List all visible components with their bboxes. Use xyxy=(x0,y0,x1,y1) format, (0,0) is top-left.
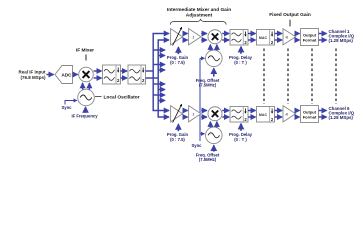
svg-text:(0 : T ): (0 : T ) xyxy=(234,60,247,65)
wire sync line between NCOs xyxy=(199,58,201,141)
output format block (channel 1) xyxy=(301,29,319,46)
amplifier A3 (fixed output gain, channel 1) xyxy=(283,29,296,45)
svg-text:-6: -6 xyxy=(285,112,288,116)
wire A7 to mixer M6 (Q) xyxy=(201,116,207,118)
svg-text:IF Frequency: IF Frequency xyxy=(71,113,98,118)
wire M6 to filter F6 (I) xyxy=(222,110,229,112)
wire input arrow to ADC xyxy=(47,74,54,76)
svg-text:(7.5MHz): (7.5MHz) xyxy=(199,82,217,87)
svg-text:Format: Format xyxy=(303,38,317,43)
wire A7 to mixer M6 (I) xyxy=(201,110,207,112)
svg-text:(76.8 MSps): (76.8 MSps) xyxy=(20,75,46,80)
brace under adjustment label xyxy=(170,19,226,24)
wire bus tap channel 3 I xyxy=(153,64,165,66)
oscillator NCO6 (channel 6) xyxy=(206,127,223,144)
wire filter F1 to filter F2 (Q) xyxy=(121,77,127,79)
wire filter F2 to bus line 1 xyxy=(146,70,154,72)
svg-text:Sync: Sync xyxy=(61,105,72,110)
node Real IF Input label xyxy=(19,70,47,80)
node Sync label (LO1) xyxy=(61,101,76,110)
wire mixer M1 to filter F1 (I) xyxy=(94,70,102,72)
wire NCO1 to mixer M2 (I) xyxy=(209,45,211,51)
node Freq. Offset input (channel 1) xyxy=(196,68,220,87)
wire F6 to MAC6 (Q) xyxy=(248,116,255,118)
wire F3 to MAC1 (Q) xyxy=(248,39,255,41)
wire bus tap channel 2 Q xyxy=(158,55,165,57)
wire bus tap channel 5 I xyxy=(153,94,165,96)
filter F3 (channel 1) xyxy=(230,30,248,46)
wire mixer M1 to filter F1 (Q) xyxy=(94,77,102,79)
wire A6 to A7 (I) xyxy=(183,110,188,112)
svg-text:Sync: Sync xyxy=(191,143,202,148)
svg-text:Format: Format xyxy=(303,115,317,120)
svg-text:Local Oscillator: Local Oscillator xyxy=(104,94,140,100)
oscillator LO1 xyxy=(78,89,95,106)
wire A2 to mixer M2 (Q) xyxy=(201,39,207,41)
wire LO1 to mixer M1 (I) xyxy=(82,83,84,89)
wire F3 to MAC1 (I) xyxy=(248,33,255,35)
wire bus tap channel 3 Q xyxy=(158,69,165,71)
svg-text:(7.5MHz): (7.5MHz) xyxy=(199,157,217,162)
node Channel 6 output label xyxy=(329,106,355,120)
wire MAC6 to A8 (I) xyxy=(275,110,282,112)
wire dashed ellipsis line 1 xyxy=(263,49,265,105)
wire sync arrow into NCO1 xyxy=(200,57,204,59)
wire A2 to mixer M2 (I) xyxy=(201,33,207,35)
MAC block (channel 1) xyxy=(257,30,275,46)
wire LO1 to mixer M1 (Q) xyxy=(88,83,90,89)
wire bus arrow into amp A6 (Q) xyxy=(165,116,169,118)
node Prog. Delay label (channel 1) xyxy=(229,47,253,65)
svg-text:Adjustment: Adjustment xyxy=(186,13,213,19)
oscillator NCO1 (channel 1) xyxy=(206,50,223,67)
svg-text:MAC: MAC xyxy=(259,113,268,117)
node Local Oscillator label xyxy=(95,94,140,100)
svg-text:2: 2 xyxy=(193,35,195,39)
wire bus tap channel 4 I xyxy=(153,83,165,85)
node Prog. Gain label (channel 1) xyxy=(167,47,189,65)
node Intermediate Mixer and Gain Adjustment label xyxy=(167,7,231,19)
node Freq. Offset input (channel 6) xyxy=(196,145,220,162)
wire MAC1 to A3 (I) xyxy=(275,33,282,35)
wire bus tap channel 2 I xyxy=(153,49,165,51)
wire bus arrow into amp A1 (I) xyxy=(165,33,169,35)
amplifier A6 (variable gain, channel 6) xyxy=(171,104,183,122)
wire A6 to A7 (Q) xyxy=(183,116,188,118)
wire NCO6 to mixer M6 (I) xyxy=(209,122,211,128)
wire output channel 1 (Q) xyxy=(319,39,327,41)
svg-text:(0 : 7.5): (0 : 7.5) xyxy=(170,137,185,142)
wire sync arrow into NCO6 xyxy=(200,133,204,135)
wire A3 to output format (Q) xyxy=(296,39,300,41)
wire ADC to mixer xyxy=(73,74,78,76)
wire M6 to filter F6 (Q) xyxy=(222,116,229,118)
wire output channel 6 (Q) xyxy=(319,116,327,118)
wire bus arrow into amp A6 (I) xyxy=(165,110,169,112)
wire MAC6 to A8 (Q) xyxy=(275,116,282,118)
ADC U1 xyxy=(55,66,73,84)
wire dashed ellipsis line 3 xyxy=(311,49,313,105)
amplifier A8 (fixed output gain, channel 6) xyxy=(283,106,296,122)
wire A3 to output format (I) xyxy=(296,33,300,35)
svg-text:(1.28 MSps): (1.28 MSps) xyxy=(329,115,354,120)
wire output channel 1 (I) xyxy=(319,33,327,35)
svg-text:MAC: MAC xyxy=(259,36,268,40)
node Fixed Output Gain label xyxy=(269,12,311,26)
wire MAC1 to A3 (Q) xyxy=(275,39,282,41)
wire NCO1 to mixer M2 (Q) xyxy=(216,45,218,51)
filter F2 (decimating low-pass) xyxy=(128,65,146,84)
mixer M6 (channel 6) xyxy=(208,107,222,121)
wire F6 to MAC6 (I) xyxy=(248,110,255,112)
svg-text:Intermediate Mixer and Gain: Intermediate Mixer and Gain xyxy=(167,7,231,13)
bus line 1 (I distribution) xyxy=(153,34,168,111)
svg-text:-6: -6 xyxy=(285,35,288,39)
mixer M2 (channel 1) xyxy=(208,30,222,44)
amplifier A1 (variable gain, channel 1) xyxy=(171,27,183,45)
svg-text:(1.28 MSps): (1.28 MSps) xyxy=(329,38,354,43)
filter F1 (decimating low-pass) xyxy=(103,65,121,84)
node Channel 1 output label xyxy=(329,29,355,43)
wire filter F1 to filter F2 (I) xyxy=(121,70,127,72)
wire A8 to output format 6 (I) xyxy=(296,110,300,112)
svg-text:Fixed Output Gain: Fixed Output Gain xyxy=(269,12,311,18)
node IF Mixer label xyxy=(76,48,94,61)
wire dashed ellipsis line 2 xyxy=(287,49,289,105)
wire bus arrow into amp A1 (Q) xyxy=(165,39,169,41)
wire M2 to filter F3 (I) xyxy=(222,33,229,35)
svg-text:ADC: ADC xyxy=(62,72,73,77)
amplifier A7 (channel 6) xyxy=(189,106,201,122)
MAC block (channel 6) xyxy=(257,107,275,123)
node IF Frequency input xyxy=(71,107,98,118)
wire output channel 6 (I) xyxy=(319,110,327,112)
svg-text:(0 : T ): (0 : T ) xyxy=(234,137,247,142)
node Prog. Delay label (channel 6) xyxy=(229,124,253,142)
svg-text:2: 2 xyxy=(193,112,195,116)
wire dashed ellipsis line 4 xyxy=(335,49,337,105)
mixer M1 (IF mixer) xyxy=(79,67,94,82)
svg-text:Real IF Input: Real IF Input xyxy=(19,70,47,75)
svg-text:(0 : 7.5): (0 : 7.5) xyxy=(170,60,185,65)
wire bus tap channel 5 Q xyxy=(158,100,165,102)
amplifier A2 (channel 1) xyxy=(189,29,201,45)
wire A8 to output format 6 (Q) xyxy=(296,116,300,118)
output format block (channel 6) xyxy=(301,106,319,123)
wire NCO6 to mixer M6 (Q) xyxy=(216,122,218,128)
wire M2 to filter F3 (Q) xyxy=(222,39,229,41)
node Prog. Gain label (channel 6) xyxy=(167,124,189,142)
wire A1 to A2 (Q) xyxy=(183,39,188,41)
filter F6 (channel 6) xyxy=(230,107,248,123)
svg-text:IF Mixer: IF Mixer xyxy=(76,48,94,54)
wire A1 to A2 (I) xyxy=(183,33,188,35)
wire filter F2 to bus line 2 xyxy=(146,77,159,79)
bus line 2 (Q distribution) xyxy=(158,40,168,117)
wire bus tap channel 4 Q xyxy=(158,89,165,91)
